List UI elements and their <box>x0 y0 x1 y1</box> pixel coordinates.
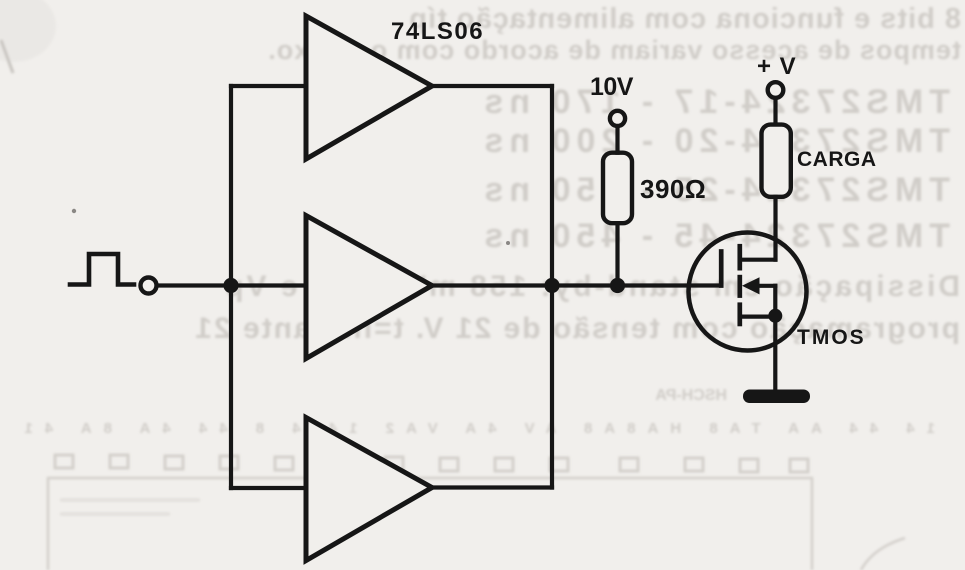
channel segment middle <box>737 275 742 298</box>
speck <box>72 209 76 213</box>
source lead <box>740 315 776 319</box>
wire: resistor lead up <box>615 127 619 153</box>
wire: source to ground <box>773 316 777 390</box>
left input bus <box>229 86 233 488</box>
wire: resistor lead down <box>615 223 619 286</box>
wire: top buffer output <box>432 84 552 88</box>
input pulse symbol <box>70 254 134 285</box>
wire: +V lead <box>773 99 777 125</box>
drain lead <box>740 258 776 262</box>
ground <box>743 390 810 404</box>
svg-text:TMS27324-45 - 450 ns: TMS27324-45 - 450 ns <box>478 217 950 255</box>
svg-text:74LS06: 74LS06 <box>391 18 484 45</box>
resistor R1 390Ω body <box>603 153 632 224</box>
svg-text:TMS27324-20 - 200 ns: TMS27324-20 - 200 ns <box>478 122 950 160</box>
wire: top buffer input <box>231 84 306 88</box>
transistor Q1 TMOS circle <box>689 233 807 351</box>
body-source tie <box>773 286 777 316</box>
input terminal circle <box>141 278 157 294</box>
body lead with arrow <box>754 284 775 288</box>
stray pen mark top-left <box>1 40 13 73</box>
svg-text:14 44 AA TA8 HA8A8 AV 4A VA2 1: 14 44 AA TA8 HA8A8 AV 4A VA2 14 4 8 44 4… <box>13 420 936 437</box>
terminal 10V <box>610 111 625 126</box>
svg-text:+ V: + V <box>757 53 797 80</box>
buffer U1c (bottom) <box>306 418 432 561</box>
svg-text:HSCH-PA: HSCH-PA <box>655 387 727 404</box>
terminal +V <box>768 82 784 98</box>
channel segment bottom <box>737 302 742 326</box>
ghost figure boxes row <box>48 455 905 570</box>
svg-text:TMOS: TMOS <box>797 326 866 349</box>
node: resistor junction <box>610 278 625 293</box>
smudge top-left <box>0 0 56 62</box>
buffer U1b (middle) <box>306 216 432 359</box>
buffer U1a (74LS06 top) <box>306 16 432 159</box>
wire: middle buffer output to gate <box>432 283 721 287</box>
gate bar <box>719 252 724 286</box>
svg-text:TMS27324-25 - 250 ns: TMS27324-25 - 250 ns <box>478 171 950 209</box>
wire: input to left bus and on to middle buffer <box>157 283 306 287</box>
channel segment top <box>737 244 742 271</box>
svg-text:TMS27324-17 - 170 ns: TMS27324-17 - 170 ns <box>478 83 950 121</box>
svg-text:CARGA: CARGA <box>797 148 877 171</box>
body arrowhead <box>742 277 760 294</box>
node: source-body junction <box>768 309 782 323</box>
svg-text:8 bits e funciona com alimenta: 8 bits e funciona com alimentação típ <box>408 3 961 35</box>
right output bus <box>550 86 554 488</box>
wire: carga to drain <box>773 197 777 260</box>
node: output junction <box>544 278 559 293</box>
wire: bottom buffer output <box>432 485 552 489</box>
node: input junction <box>223 278 238 293</box>
resistor R2 CARGA body <box>762 125 791 197</box>
speck <box>506 241 510 245</box>
svg-text:390Ω: 390Ω <box>640 174 706 204</box>
svg-text:10V: 10V <box>590 73 634 101</box>
wire: bottom buffer input <box>231 486 306 490</box>
